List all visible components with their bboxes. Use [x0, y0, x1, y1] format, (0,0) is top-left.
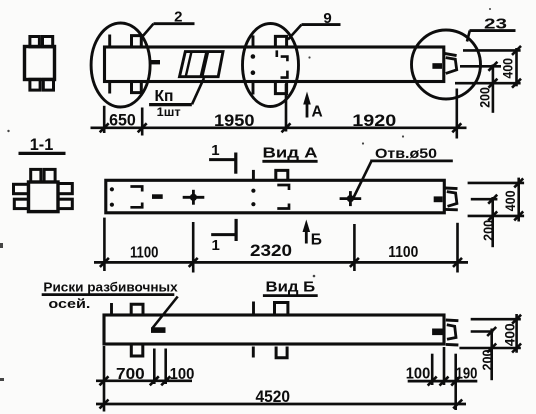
view A: hidden plate bracket 2: [277, 185, 289, 209]
callout ellipse left: [91, 23, 150, 107]
svg-text:100: 100: [170, 366, 195, 383]
view A: hidden plate bracket 1: [130, 187, 142, 208]
svg-text:1шт: 1шт: [157, 105, 181, 119]
section cut 1 lower mark: [211, 219, 236, 254]
view B right: loop bottom dash: [446, 343, 459, 347]
view B left: top tab: [131, 304, 143, 314]
plan left: bottom tab: [132, 81, 142, 93]
svg-text:осей.: осей.: [48, 296, 90, 311]
view B right-side dims: [459, 314, 521, 380]
svg-text:100: 100: [406, 366, 431, 383]
section 1-1 symbol: [14, 169, 73, 211]
view A: weld dash: [152, 194, 163, 199]
label Kp: [149, 88, 192, 119]
svg-text:650: 650: [109, 111, 136, 130]
svg-text:1950: 1950: [214, 111, 255, 130]
slash ticks plan dims: [100, 123, 462, 132]
plate Kp parallelogram: [180, 52, 224, 77]
plan middle: hidden bracket upper: [277, 50, 288, 61]
plan right: loop top dash: [445, 53, 457, 55]
plan middle: axis tick bottom: [252, 81, 255, 95]
view arrow A: [303, 92, 323, 121]
slash ticks 4520: [100, 400, 463, 409]
plan middle: rivet dots: [251, 54, 256, 59]
plan: weld dash: [151, 60, 160, 64]
view B: riska mark: [151, 327, 166, 333]
view B dimension line 700/100: [96, 379, 192, 382]
label 2: [142, 9, 195, 38]
plan left: axis tick top: [108, 35, 111, 49]
view B right: loop top dash: [446, 319, 459, 323]
extension line 650/1950: [141, 108, 144, 136]
view A right: loop bar: [434, 196, 443, 202]
svg-text:1100: 1100: [388, 244, 418, 261]
svg-text:1-1: 1-1: [30, 136, 54, 154]
plan left: axis tick bottom: [108, 81, 111, 94]
view B middle: top tab: [275, 303, 288, 314]
svg-text:Вид Б: Вид Б: [266, 279, 316, 295]
view A left: rivet dots: [110, 187, 114, 191]
slash ticks view A dims: [100, 258, 462, 267]
label otv 50: [353, 145, 453, 198]
plan right-side dims: [455, 46, 521, 113]
section cut 1 upper mark: [209, 142, 236, 174]
view B dimension line 100/190: [408, 380, 478, 383]
svg-text:Отв.ø50: Отв.ø50: [375, 145, 437, 161]
plan view: column body: [105, 47, 444, 82]
svg-text:А: А: [312, 104, 323, 121]
section label 1-1: [19, 136, 66, 154]
plan left: top tab: [132, 36, 142, 48]
view A: hole marker (otv 50): [340, 191, 362, 206]
svg-text:1920: 1920: [352, 111, 396, 130]
svg-text:Кп: Кп: [155, 88, 174, 105]
view B dim extension lines: [104, 346, 456, 412]
svg-text:Риски разбивочных: Риски разбивочных: [43, 279, 178, 294]
view B right: loop bar: [432, 329, 444, 336]
view A right: loop top dash: [445, 187, 457, 191]
plan middle: top tab: [275, 36, 286, 48]
svg-text:400: 400: [501, 58, 516, 79]
view A: column body: [106, 180, 445, 213]
view A: top tab: [276, 170, 288, 180]
view A right: loop bottom dash: [445, 208, 458, 211]
view A right: loop hook: [447, 192, 457, 207]
svg-text:700: 700: [116, 366, 145, 383]
view B left: bottom tab: [131, 344, 143, 356]
plan dimension line 650/1950/1920: [91, 126, 467, 129]
label 9: [288, 10, 341, 39]
plan middle: hidden bracket lower: [281, 71, 288, 78]
column end-view symbol: [25, 37, 55, 91]
svg-text:200: 200: [480, 350, 495, 371]
view B middle: axis tick top: [252, 302, 255, 315]
svg-text:1: 1: [211, 142, 219, 159]
svg-text:2320: 2320: [250, 241, 292, 260]
view B right: loop hook: [447, 325, 456, 339]
view A title: [262, 146, 318, 162]
svg-text:1: 1: [212, 237, 220, 254]
plan middle: bottom tab: [275, 81, 286, 94]
plan right: loop hook: [446, 58, 457, 74]
view B title: [263, 279, 318, 295]
view B left: axis tick top: [110, 303, 113, 316]
view A: centre hole marker 1: [183, 190, 205, 205]
view A: axis tick: [252, 170, 255, 181]
callout ellipse middle: [243, 24, 299, 107]
extension line left: [103, 106, 106, 133]
note riski razbivochnyh osej: [42, 279, 179, 328]
extension line right: [455, 89, 458, 139]
extension line 1950/1920: [285, 84, 288, 132]
view A right-side dims: [468, 178, 524, 248]
view B middle: axis tick bottom: [252, 347, 255, 358]
view A: rivet dots 2: [251, 189, 255, 193]
svg-text:200: 200: [481, 220, 496, 241]
svg-text:200: 200: [478, 87, 493, 108]
plan right: lifting loop bar: [432, 63, 442, 69]
view A dimension line 1100/2320/1100: [94, 261, 468, 264]
callout circle right: [412, 30, 481, 99]
view B: column body: [104, 315, 444, 344]
svg-text:400: 400: [503, 323, 518, 346]
svg-text:400: 400: [503, 190, 518, 211]
overall dimension line 4520: [96, 403, 466, 406]
view arrow B: [303, 220, 322, 249]
label 23: [467, 16, 516, 42]
view B middle: bottom tab: [276, 347, 287, 358]
svg-text:4520: 4520: [256, 387, 291, 406]
plan middle: axis tick top: [252, 35, 255, 48]
svg-text:Б: Б: [311, 231, 322, 248]
slash ticks view B dims: [100, 376, 461, 385]
svg-text:190: 190: [456, 366, 478, 383]
svg-text:1100: 1100: [130, 244, 159, 261]
svg-text:Вид А: Вид А: [263, 146, 319, 162]
plate Kp leader: [192, 78, 204, 104]
extension lines view A dims: [104, 218, 457, 273]
